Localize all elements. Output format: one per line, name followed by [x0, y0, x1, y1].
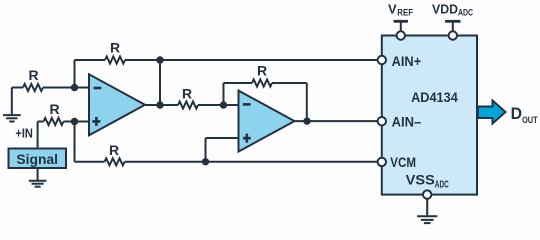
wire amp1 output row: [145, 104, 239, 106]
node G (VCM rail junction): [202, 158, 209, 165]
wire node B down to amp1 output: [159, 60, 161, 105]
op-amp U1: [89, 74, 145, 135]
svg-text:R: R: [110, 40, 120, 56]
label DOUT: [511, 104, 538, 126]
wire node B to AIN+ pin: [160, 59, 378, 61]
pin VCM: [378, 155, 416, 170]
wire node F down to VCM rail: [74, 122, 76, 162]
svg-text:VCM: VCM: [390, 155, 416, 170]
svg-text:R: R: [28, 67, 38, 83]
node D (amp2 inverting input junction): [220, 101, 227, 108]
svg-text:D: D: [511, 104, 522, 123]
svg-text:R: R: [182, 86, 192, 102]
ADC U3 AD4134: [382, 36, 477, 195]
wire signal box up to +IN node row: [37, 122, 39, 149]
svg-text:VSS: VSS: [406, 172, 435, 187]
svg-text:R: R: [257, 63, 267, 79]
signal source box: [9, 149, 67, 169]
ground GND3 (ADC VSS ground): [417, 198, 437, 223]
wire node A up to feedback row: [74, 60, 76, 88]
svg-text:AIN–: AIN–: [392, 115, 422, 130]
label VDDADC: [432, 1, 473, 17]
pin AIN-: [378, 115, 422, 130]
pin VDDADC (top): [445, 21, 460, 39]
svg-text:OUT: OUT: [522, 115, 538, 126]
resistor R3 (between amplifiers): [178, 102, 198, 109]
wire amp2 output to AIN- pin: [295, 120, 379, 122]
output arrow DOUT: [478, 101, 506, 124]
resistor R4 (amp2 feedback): [252, 80, 272, 87]
svg-text:ADC: ADC: [458, 7, 473, 17]
wire amp2 feedback row left segment: [224, 82, 253, 84]
resistor R2 (amp1 feedback): [105, 57, 125, 64]
ground GND1 (left input ground): [3, 88, 21, 122]
pin VREF (top): [394, 21, 408, 39]
wire amp2 feedback right segment down to output: [272, 83, 307, 121]
wire +IN row into amp1 non-inverting input: [38, 121, 89, 123]
svg-text:AD4134: AD4134: [411, 90, 458, 105]
resistor R6 (bias to VCM): [105, 158, 125, 165]
wire feedback row left segment: [75, 59, 106, 61]
node B (feedback / AIN+ junction): [156, 56, 163, 63]
wire node G up to amp2 non-inverting input: [206, 138, 239, 162]
label VREF: [388, 1, 414, 17]
resistor R5 (signal input): [44, 118, 64, 125]
node E (amp2 output junction): [303, 117, 310, 124]
svg-text:Signal: Signal: [16, 151, 58, 167]
wire feedback row to node B: [125, 59, 160, 61]
svg-text:VDD: VDD: [432, 1, 458, 16]
svg-text:REF: REF: [397, 7, 413, 17]
wire from GND1 to node A (amp1 inverting input): [12, 87, 89, 89]
svg-text:R: R: [109, 142, 119, 158]
op-amp U2: [239, 91, 295, 152]
ground GND2 (below signal box): [29, 168, 47, 187]
wire VCM rail left segment: [75, 161, 379, 163]
svg-text:V: V: [388, 1, 397, 16]
node A (amp1 inverting input junction): [71, 84, 78, 91]
svg-text:+IN: +IN: [15, 125, 33, 140]
resistor R1 (ground to inverting input): [23, 84, 43, 91]
node C (amp1 output junction): [156, 101, 163, 108]
svg-text:AIN+: AIN+: [392, 54, 422, 69]
wire node D up to amp2 feedback row: [223, 83, 225, 105]
pin VSSADC (bottom): [406, 172, 449, 198]
pin AIN+: [378, 54, 422, 69]
node F (amp1 non-inverting junction): [71, 118, 78, 125]
svg-text:ADC: ADC: [435, 179, 449, 190]
svg-text:R: R: [49, 101, 59, 117]
